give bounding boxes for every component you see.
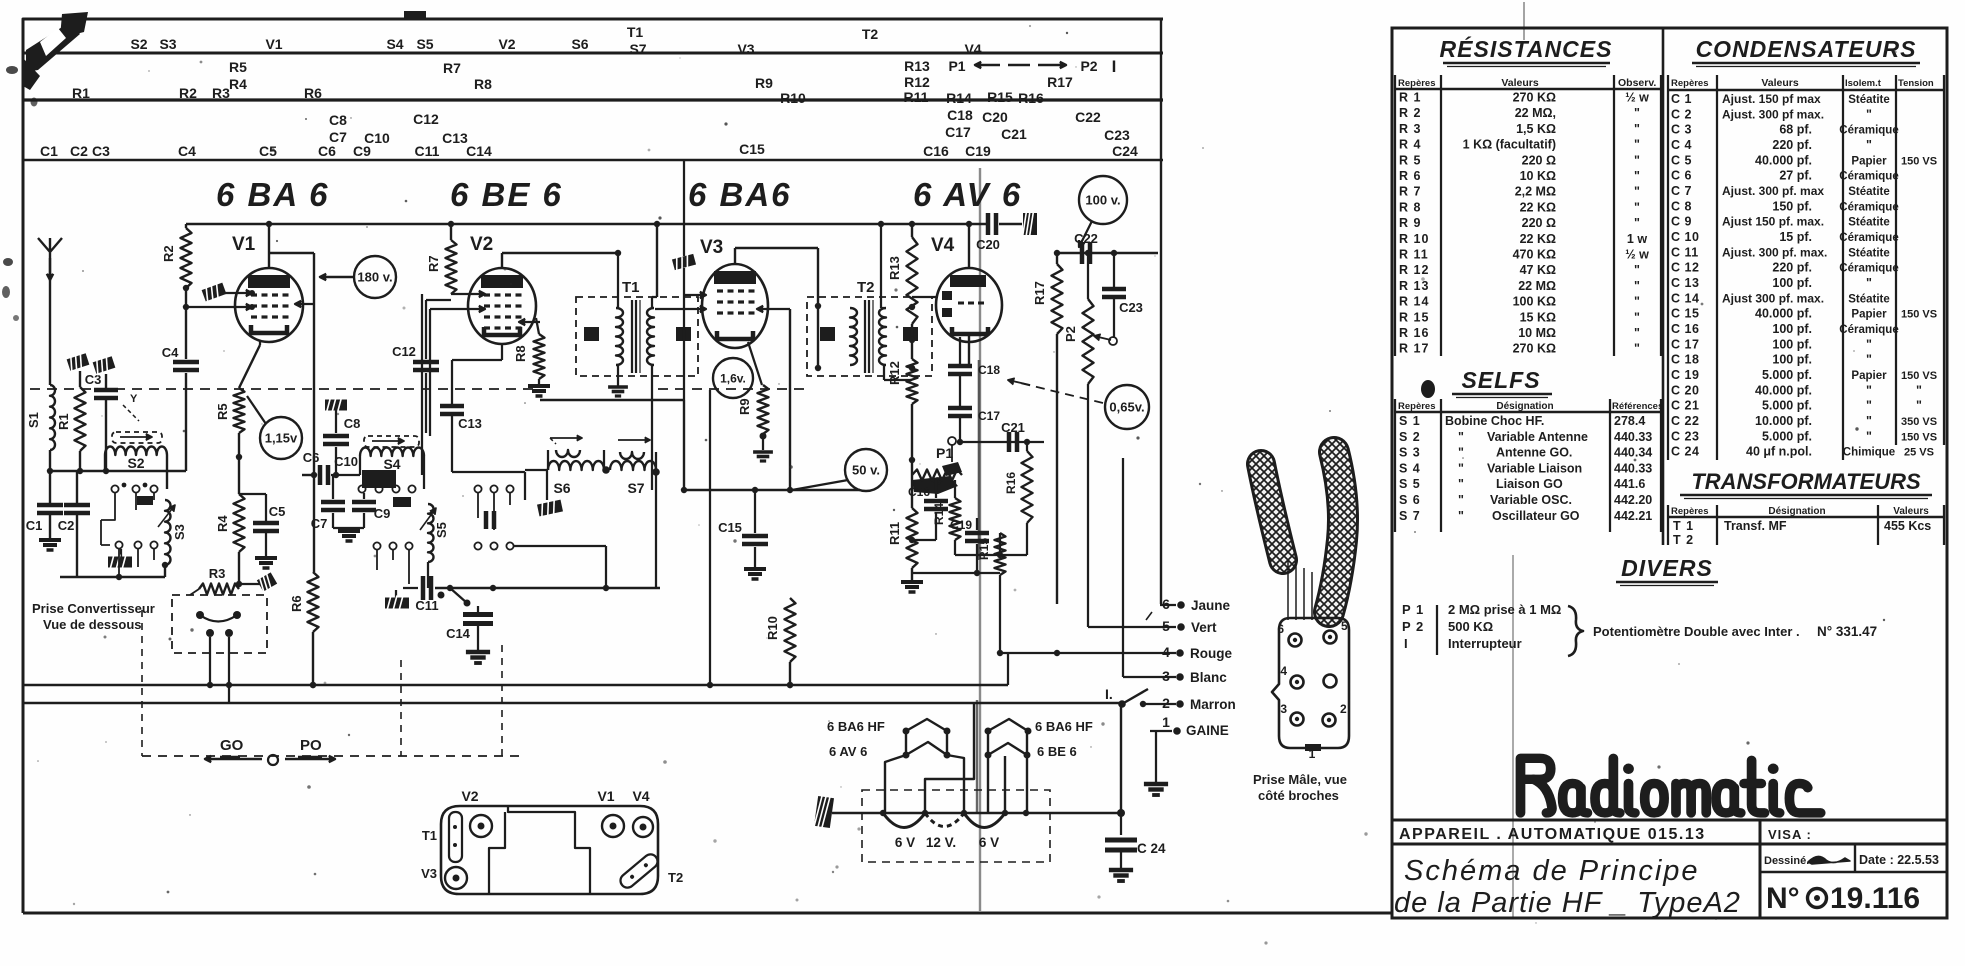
svg-text:100 pf.: 100 pf. (1772, 322, 1812, 336)
svg-text:Repères: Repères (1671, 506, 1709, 517)
svg-text:Jaune: Jaune (1191, 598, 1231, 613)
wire C6 left to V1 coupling (302, 474, 314, 476)
svg-text:Oscillateur GO: Oscillateur GO (1492, 509, 1580, 523)
scan smudge top (404, 11, 426, 20)
svg-text:R15: R15 (987, 89, 1013, 105)
capacitor C7 (311, 475, 345, 531)
svg-text:C3: C3 (85, 372, 102, 387)
svg-text:4: 4 (1280, 664, 1287, 678)
svg-text:C5: C5 (269, 504, 286, 519)
svg-text:C18: C18 (947, 107, 973, 123)
dashed riser C11 (400, 660, 402, 756)
svg-text:Papier: Papier (1851, 155, 1887, 167)
svg-text:6: 6 (1277, 622, 1284, 636)
resistor R16 (1004, 442, 1033, 555)
capacitor table row C12 (1671, 261, 1899, 275)
svg-text:R 11: R 11 (1399, 248, 1429, 262)
capacitor table row C3 (1671, 123, 1899, 137)
svg-text:V4: V4 (632, 788, 649, 804)
svg-text:R11: R11 (904, 89, 929, 105)
self S3 with slug arrow (158, 500, 187, 565)
capacitor C11 series (403, 576, 445, 613)
svg-text:1 KΩ (facultatif): 1 KΩ (facultatif) (1463, 138, 1556, 152)
wire 1,6v down (709, 390, 711, 685)
svg-text:Papier: Papier (1851, 370, 1887, 382)
svg-text:C19: C19 (965, 143, 991, 159)
svg-text:V1: V1 (232, 234, 256, 255)
svg-text:R16: R16 (1018, 90, 1044, 106)
ground under gaine (1144, 731, 1168, 795)
capacitor table row C8 (1671, 199, 1899, 213)
svg-text:R2: R2 (179, 85, 197, 101)
capacitor table row C16 (1671, 322, 1899, 336)
V1 grid arrow with shield (201, 281, 255, 304)
svg-text:R 3: R 3 (1399, 122, 1421, 136)
resistor table row R4 (1399, 138, 1640, 152)
cable sheath right (1329, 452, 1343, 612)
svg-text:R3: R3 (209, 566, 226, 581)
svg-text:R10: R10 (780, 90, 806, 106)
svg-text:C12: C12 (413, 111, 439, 127)
component location strip line 2 (23, 98, 1163, 101)
svg-text:S 3: S 3 (1399, 446, 1421, 460)
svg-text:2: 2 (1340, 702, 1347, 716)
transformer T2 (807, 279, 932, 376)
svg-text:Références: Références (1612, 401, 1663, 412)
svg-text:455 Kcs: 455 Kcs (1884, 519, 1931, 533)
svg-text:S4: S4 (383, 456, 400, 472)
capacitor C6 series (302, 450, 360, 485)
svg-text:PO: PO (300, 737, 322, 754)
capacitor table row C22 (1671, 414, 1937, 428)
svg-text:C 13: C 13 (1671, 276, 1699, 290)
chassis T2 slot (618, 851, 684, 890)
switch contacts row under S2 (111, 483, 157, 493)
wire C3 bottom (105, 400, 107, 471)
scan smudge top-left corner (2, 12, 88, 321)
svg-text:Stéatite: Stéatite (1848, 217, 1890, 229)
resistor table row R14 (1399, 295, 1640, 309)
node junction line y471 (47, 468, 186, 474)
svg-text:C2: C2 (58, 518, 75, 533)
svg-text:": " (1634, 169, 1640, 183)
capacitor table row C13 (1671, 276, 1872, 290)
svg-text:SELFS: SELFS (1461, 367, 1540, 393)
svg-text:C16: C16 (923, 143, 949, 159)
self S1 (26, 385, 55, 450)
svg-text:10.000 pf.: 10.000 pf. (1755, 414, 1812, 428)
svg-text:": " (1634, 153, 1640, 167)
svg-text:1: 1 (1162, 714, 1170, 730)
heater labels (827, 719, 1093, 759)
svg-text:R 6: R 6 (1399, 169, 1421, 183)
svg-text:5: 5 (1341, 619, 1348, 633)
svg-text:6: 6 (1162, 596, 1170, 612)
scan crease top right (1523, 2, 1525, 40)
svg-text:": " (1634, 185, 1640, 199)
table SELFS header (1398, 401, 1663, 412)
svg-text:C9: C9 (353, 143, 371, 159)
svg-text:C8: C8 (344, 416, 361, 431)
svg-text:Céramique: Céramique (1839, 125, 1898, 137)
svg-text:T2: T2 (668, 870, 683, 885)
svg-text:100 pf.: 100 pf. (1772, 337, 1812, 351)
heater dashed box (862, 790, 1050, 862)
svg-text:68 pf.: 68 pf. (1779, 123, 1812, 137)
svg-text:R14: R14 (946, 90, 972, 106)
svg-text:½ w: ½ w (1625, 91, 1649, 105)
svg-text:R2: R2 (161, 245, 176, 262)
svg-text:Ajust 300 pf. max.: Ajust 300 pf. max. (1722, 291, 1824, 305)
wire 4 Rouge (1000, 644, 1232, 661)
svg-text:C 15: C 15 (1671, 307, 1699, 321)
svg-text:1,5 KΩ: 1,5 KΩ (1516, 122, 1556, 136)
T1 secondary connections (652, 224, 657, 490)
svg-text:C15: C15 (739, 141, 765, 157)
svg-text:3: 3 (1280, 702, 1287, 716)
svg-text:": " (1916, 383, 1922, 397)
schematic right border wire (1160, 19, 1162, 604)
svg-text:C 20: C 20 (1671, 383, 1699, 397)
svg-text:V4: V4 (931, 235, 955, 256)
svg-text:C6: C6 (303, 450, 320, 465)
svg-text:1 w: 1 w (1627, 232, 1647, 246)
capacitor C19 (950, 518, 989, 573)
svg-text:6 BE 6: 6 BE 6 (1037, 744, 1077, 759)
svg-text:Date : 22.5.53: Date : 22.5.53 (1859, 853, 1939, 867)
trimmer C10 blob (334, 454, 396, 488)
svg-text:V2: V2 (470, 234, 493, 255)
svg-text:S 6: S 6 (1399, 493, 1421, 507)
svg-text:TRANSFORMATEURS: TRANSFORMATEURS (1691, 469, 1921, 494)
svg-text:R13: R13 (904, 58, 930, 74)
svg-text:S6: S6 (553, 480, 570, 496)
svg-text:C 19: C 19 (1671, 368, 1699, 382)
selfs table row S7 (1399, 509, 1652, 523)
svg-text:C6: C6 (318, 143, 336, 159)
svg-text:R13: R13 (887, 256, 902, 280)
table TRANSFORMATEURS grid (1668, 505, 1944, 545)
svg-text:CONDENSATEURS: CONDENSATEURS (1696, 36, 1917, 62)
svg-text:R3: R3 (212, 85, 230, 101)
selfs table row S4 (1399, 461, 1652, 475)
resistor table row R9 (1399, 216, 1640, 230)
table SELFS title (1452, 367, 1552, 398)
svg-text:6 AV 6: 6 AV 6 (829, 744, 867, 759)
capacitor table row C20 (1671, 383, 1922, 397)
svg-text:S 7: S 7 (1399, 509, 1421, 523)
svg-text:R12: R12 (887, 361, 902, 385)
heater ground left (814, 794, 835, 830)
oscillator line to S7 (435, 585, 660, 591)
svg-text:Rouge: Rouge (1190, 646, 1232, 661)
main B+ bus (186, 221, 986, 228)
svg-text:470 KΩ: 470 KΩ (1513, 248, 1556, 262)
svg-text:GAINE: GAINE (1186, 723, 1229, 738)
dashed riser C14 (501, 645, 503, 756)
svg-text:I: I (1112, 57, 1117, 76)
capacitor C20 (965, 211, 1037, 252)
svg-text:C15: C15 (718, 520, 742, 535)
svg-text:C 14: C 14 (1671, 291, 1699, 305)
svg-text:APPAREIL . AUTOMATIQUE 01: APPAREIL . AUTOMATIQUE 015.13 (1399, 826, 1706, 843)
title number (1766, 882, 1920, 915)
capacitor C23 (1102, 250, 1143, 338)
svg-text:": " (1866, 138, 1872, 152)
ground C1 (39, 513, 61, 550)
selfs table row S5 (1399, 477, 1645, 491)
chassis V2 socket (461, 788, 492, 837)
svg-text:Céramique: Céramique (1839, 171, 1898, 183)
heater winding arcs (883, 813, 1005, 850)
svg-text:R4: R4 (215, 515, 230, 532)
svg-text:150 VS: 150 VS (1901, 431, 1937, 443)
svg-text:6 V: 6 V (895, 835, 915, 850)
self S4 with slug (360, 436, 424, 489)
svg-text:C 4: C 4 (1671, 138, 1692, 152)
svg-text:C1: C1 (40, 143, 58, 159)
chassis blob above C3 (92, 354, 116, 388)
svg-text:220 pf.: 220 pf. (1772, 261, 1812, 275)
svg-text:150 VS: 150 VS (1901, 155, 1937, 167)
svg-text:10 KΩ: 10 KΩ (1520, 169, 1556, 183)
svg-text:150 VS: 150 VS (1901, 309, 1937, 321)
svg-text:Désignation: Désignation (1496, 401, 1553, 412)
table RESISTANCES header (1398, 77, 1656, 89)
svg-text:I: I (1404, 636, 1409, 651)
svg-text:T2: T2 (862, 26, 879, 42)
svg-text:C 3: C 3 (1671, 123, 1692, 137)
svg-text:S 1: S 1 (1399, 414, 1421, 428)
table TRANSFORMATEURS header (1671, 506, 1929, 517)
svg-text:1,15v: 1,15v (265, 431, 298, 446)
svg-text:½ w: ½ w (1625, 248, 1649, 262)
svg-text:C 22: C 22 (1671, 414, 1699, 428)
capacitor C21 line (957, 420, 1044, 452)
svg-text:C10: C10 (334, 454, 358, 469)
svg-text:R8: R8 (513, 345, 528, 362)
svg-text:2,2 MΩ: 2,2 MΩ (1515, 185, 1556, 199)
svg-text:R10: R10 (765, 616, 780, 640)
S6 ground blob (537, 470, 564, 518)
switch I on bus (1105, 686, 1148, 708)
svg-text:": " (1634, 138, 1640, 152)
svg-text:C 7: C 7 (1671, 184, 1692, 198)
DIVERS potentiometre note (1593, 624, 1877, 639)
svg-text:C 1: C 1 (1671, 92, 1692, 106)
svg-text:150 pf.: 150 pf. (1772, 199, 1812, 213)
svg-text:Repères: Repères (1398, 401, 1436, 412)
svg-text:R17: R17 (1032, 281, 1047, 305)
capacitor table row C5 (1671, 153, 1937, 167)
svg-text:": " (1458, 509, 1464, 523)
svg-text:278.4: 278.4 (1614, 414, 1645, 428)
heater roofs right (985, 719, 1032, 813)
svg-text:R17: R17 (1047, 74, 1073, 90)
svg-text:220 pf.: 220 pf. (1772, 138, 1812, 152)
chassis V1 socket (597, 788, 624, 837)
svg-text:C 12: C 12 (1671, 261, 1699, 275)
svg-text:Céramique: Céramique (1839, 324, 1898, 336)
resistor R5 (215, 388, 245, 433)
wire S1 to C1 (49, 450, 51, 503)
svg-text:T 1: T 1 (1673, 519, 1694, 533)
V2 plate lead (502, 253, 620, 268)
svg-text:": " (1634, 279, 1640, 293)
svg-text:Bobine Choc HF.: Bobine Choc HF. (1445, 414, 1544, 428)
capacitor C16 (908, 480, 948, 543)
tube V1 (235, 268, 303, 342)
resistor table row R1 (1399, 91, 1649, 105)
capacitor C15 (718, 489, 768, 579)
switch to heater bus vertical (1120, 704, 1122, 813)
svg-text:350 VS: 350 VS (1901, 416, 1937, 428)
svg-text:R 15: R 15 (1399, 310, 1429, 324)
capacitor C5 (239, 494, 285, 568)
resistor table row R10 (1399, 232, 1647, 246)
capacitor table row C21 (1671, 399, 1922, 413)
svg-text:Potentiomètre Double avec I: Potentiomètre Double avec Inter . (1593, 624, 1800, 639)
svg-text:": " (1634, 106, 1640, 120)
svg-text:Y: Y (130, 393, 138, 405)
ground C7 C9 (333, 528, 364, 541)
svg-text:C 17: C 17 (1671, 337, 1699, 351)
svg-text:C8: C8 (329, 112, 347, 128)
svg-text:S4: S4 (386, 36, 403, 52)
svg-text:Schéma de Principe: Schéma de Principe (1404, 855, 1700, 887)
svg-text:25 VS: 25 VS (1904, 447, 1934, 459)
svg-text:R 10: R 10 (1399, 232, 1429, 246)
svg-text:Marron: Marron (1190, 697, 1236, 712)
svg-text:C18: C18 (978, 363, 1000, 377)
capacitor table row C7 (1671, 184, 1890, 198)
svg-text:T2: T2 (857, 279, 875, 296)
capacitor table row C4 (1671, 138, 1872, 152)
svg-text:R 14: R 14 (1399, 295, 1429, 309)
dashed riser left (141, 610, 143, 756)
trimmer blob 2 (393, 497, 411, 507)
svg-text:440.34: 440.34 (1614, 446, 1652, 460)
svg-text:Variable OSC.: Variable OSC. (1490, 493, 1572, 507)
DIVERS brace (1568, 606, 1583, 656)
resistor table row R8 (1399, 200, 1640, 214)
svg-text:V1: V1 (597, 788, 614, 804)
svg-text:": " (1634, 342, 1640, 356)
wire 1 GAINE (1150, 714, 1229, 738)
svg-text:27 pf.: 27 pf. (1779, 169, 1812, 183)
svg-text:C 8: C 8 (1671, 199, 1692, 213)
svg-text:Transf. MF: Transf. MF (1724, 519, 1787, 533)
svg-text:C20: C20 (982, 109, 1008, 125)
svg-text:3: 3 (1162, 668, 1170, 684)
cable wires to plug (1288, 560, 1312, 620)
title dessine + signature (1764, 855, 1850, 867)
striped blob right of R3 (239, 571, 278, 594)
svg-text:R11: R11 (887, 522, 902, 545)
svg-text:R1: R1 (72, 85, 90, 101)
svg-text:P2: P2 (1063, 326, 1078, 342)
svg-text:P2: P2 (1080, 58, 1097, 74)
svg-text:R5: R5 (215, 403, 230, 420)
scan crease vertical center (977, 168, 980, 911)
svg-text:": " (1916, 399, 1922, 413)
wire R15 to rouge line (997, 575, 1003, 656)
svg-text:R12: R12 (904, 74, 930, 90)
V3 plate to T2 (735, 248, 821, 371)
svg-text:180 v.: 180 v. (357, 270, 392, 285)
capacitor table row C14 (1671, 291, 1890, 305)
svg-text:R6: R6 (289, 595, 304, 612)
svg-text:Variable Antenne: Variable Antenne (1487, 430, 1588, 444)
svg-text:500 KΩ: 500 KΩ (1448, 619, 1493, 634)
svg-text:10 MΩ: 10 MΩ (1518, 326, 1556, 340)
svg-text:S7: S7 (629, 41, 646, 57)
S6 contacts row (474, 485, 513, 530)
svg-text:": " (1866, 337, 1872, 351)
capacitor across S6 (484, 511, 489, 529)
svg-text:R 5: R 5 (1399, 153, 1421, 167)
svg-text:": " (1634, 216, 1640, 230)
resistor table row R15 (1399, 310, 1640, 324)
voltage circle 100v (1079, 176, 1127, 247)
svg-text:C13: C13 (458, 416, 482, 431)
svg-text:GO: GO (220, 737, 244, 754)
svg-text:C 10: C 10 (1671, 230, 1699, 244)
V1 top lead to B+ bus (266, 221, 272, 268)
svg-text:Tension: Tension (1898, 78, 1934, 89)
S4 contacts row (358, 485, 415, 492)
svg-text:2 MΩ prise à 1 MΩ: 2 MΩ prise à 1 MΩ (1448, 602, 1561, 617)
capacitor table row C24 (1671, 445, 1934, 459)
svg-text:": " (1866, 107, 1872, 121)
svg-text:S7: S7 (627, 480, 644, 496)
svg-text:C 24: C 24 (1671, 445, 1699, 459)
resistor R1 (56, 387, 86, 451)
resistor R4 (215, 494, 245, 552)
svg-text:N° 331.47: N° 331.47 (1817, 624, 1877, 639)
svg-text:V4: V4 (964, 41, 981, 57)
potentiometer P2 (1063, 250, 1117, 627)
svg-text:R 7: R 7 (1399, 185, 1421, 199)
svg-text:V2: V2 (461, 788, 478, 804)
svg-text:S2: S2 (127, 455, 144, 471)
svg-text:441.6: 441.6 (1614, 477, 1645, 491)
svg-text:C 5: C 5 (1671, 153, 1692, 167)
wire R5 to R4 (236, 433, 242, 494)
resistor R12 (887, 324, 918, 466)
chassis V4 socket (632, 788, 653, 837)
svg-text:P1: P1 (936, 445, 953, 461)
svg-text:S6: S6 (571, 36, 588, 52)
V1 cathode lead (259, 341, 261, 345)
V2 grid arrows (422, 291, 540, 475)
svg-text:T1: T1 (422, 828, 437, 843)
svg-text:Prise Mâle, vue: Prise Mâle, vue (1253, 772, 1347, 787)
capacitor table row C2 (1671, 107, 1872, 121)
selfs table row S6 (1399, 493, 1652, 507)
svg-text:5.000 pf.: 5.000 pf. (1762, 429, 1812, 443)
svg-text:100 pf.: 100 pf. (1772, 353, 1812, 367)
svg-text:Blanc: Blanc (1190, 670, 1227, 685)
svg-text:": " (1634, 263, 1640, 277)
svg-text:": " (1634, 310, 1640, 324)
capacitor table row C18 (1671, 353, 1872, 367)
svg-text:442.21: 442.21 (1614, 509, 1652, 523)
selfs table row S2 (1399, 430, 1652, 444)
resistor R17 (1032, 253, 1063, 604)
tuning pointer Y near S2 (123, 393, 139, 421)
svg-text:50 v.: 50 v. (852, 463, 880, 478)
